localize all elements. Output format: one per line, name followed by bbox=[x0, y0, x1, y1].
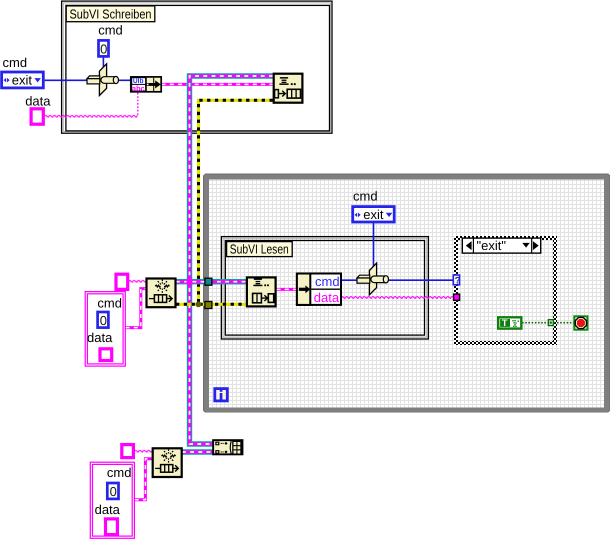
svg-text:exit: exit bbox=[12, 72, 33, 87]
svg-text:data: data bbox=[87, 330, 113, 345]
wire: string zigzag unbundle data to case tunnel bbox=[342, 296, 454, 299]
wire: blue type cast to flatten bbox=[118, 79, 131, 81]
cluster string constant (middle) bbox=[100, 349, 112, 361]
obtain queue node bbox=[147, 279, 176, 308]
svg-text:data: data bbox=[95, 502, 121, 517]
frame label SubVI Lesen bbox=[227, 242, 293, 257]
svg-text:0: 0 bbox=[100, 313, 107, 328]
svg-text:cmd: cmd bbox=[97, 295, 122, 310]
flat sequence frame SubVI Lesen bbox=[221, 237, 428, 339]
svg-text:"exit": "exit" bbox=[477, 238, 507, 253]
wire: error cluster obtain to dequeue bbox=[176, 303, 246, 306]
type cast U1 (SubVI Schreiben) bbox=[87, 64, 119, 96]
case tunnel string (magenta) bbox=[454, 294, 460, 300]
wire: string zigzag name into obtain queue 2 bbox=[135, 450, 152, 453]
case tunnel boolean (green) bbox=[548, 320, 553, 326]
wire: cluster dequeue element to unbundle bbox=[277, 288, 297, 291]
svg-text:cmd: cmd bbox=[353, 189, 378, 204]
flatten-to-string node bbox=[131, 77, 161, 93]
enqueue element node bbox=[274, 74, 303, 103]
wire: string flatten to enqueue element bbox=[162, 83, 273, 86]
case structure border bbox=[454, 236, 557, 345]
svg-text:data: data bbox=[314, 290, 340, 305]
svg-text:0: 0 bbox=[100, 41, 107, 56]
dequeue element node bbox=[247, 277, 276, 306]
flat sequence frame SubVI Schreiben bbox=[62, 1, 332, 133]
tunnel queue refnum (loop border) bbox=[205, 278, 212, 285]
wire: boolean T constant to case tunnel bbox=[522, 322, 548, 324]
unbundle by name node bbox=[297, 274, 341, 306]
string constant (queue name, bottom) bbox=[122, 445, 134, 458]
enum control cmd bbox=[2, 72, 44, 88]
cluster enum 0 (bottom) bbox=[107, 483, 118, 499]
cluster enum 0 (middle) bbox=[98, 312, 109, 328]
build/array node at bottom bbox=[212, 439, 243, 455]
wire: boolean case tunnel to loop condition bbox=[554, 322, 574, 324]
wire: cluster constant to obtain queue bbox=[126, 289, 147, 328]
wire: blue 0 constant down into type cast bbox=[102, 58, 104, 68]
string control data bbox=[31, 109, 43, 124]
wire: queue refnum obtain to dequeue bbox=[176, 279, 246, 284]
wire: cluster constant 2 to obtain queue 2 bbox=[135, 459, 152, 500]
svg-text:cmd: cmd bbox=[3, 55, 28, 70]
wire: string zigzag data control to flatten bbox=[45, 115, 138, 118]
wire: blue exit constant down into type cast 2 bbox=[373, 223, 375, 267]
cluster constant (middle) bbox=[85, 292, 125, 367]
svg-text:cmd: cmd bbox=[98, 23, 123, 38]
svg-text:0: 0 bbox=[110, 484, 117, 499]
case selector label bbox=[462, 238, 540, 253]
iteration terminal i bbox=[215, 389, 228, 401]
enum constant exit (while loop) bbox=[353, 207, 395, 222]
obtain queue node 2 bbox=[153, 448, 182, 477]
loop condition terminal (stop) bbox=[574, 316, 587, 329]
cluster constant (bottom) bbox=[90, 462, 134, 538]
svg-text:cmd: cmd bbox=[107, 465, 132, 480]
frame label SubVI Schreiben bbox=[66, 6, 155, 22]
wire: string branch down from flatten abc bbox=[137, 93, 139, 116]
tunnel error cluster (loop border) bbox=[205, 302, 212, 309]
string constant (queue name, middle) bbox=[116, 274, 128, 289]
boolean constant T bbox=[498, 317, 521, 329]
while loop border bbox=[203, 174, 610, 412]
wire: blue unbundle cmd to type cast 2 bbox=[342, 279, 359, 281]
svg-text:exit: exit bbox=[363, 207, 384, 222]
wire: error cluster trunk vertical to enqueue bbox=[199, 100, 273, 304]
wire: queue refnum trunk (top corner, vertical, bottom corner) bbox=[190, 76, 273, 444]
junction dot error bbox=[196, 301, 202, 307]
svg-text:abc: abc bbox=[132, 84, 145, 93]
enum constant 0 (top frame) bbox=[99, 40, 109, 56]
wire: string zigzag name into obtain queue bbox=[129, 280, 146, 283]
svg-text:cmd: cmd bbox=[315, 274, 340, 289]
wire: blue enum control to type cast bbox=[45, 79, 87, 81]
svg-text:SubVI Lesen: SubVI Lesen bbox=[230, 242, 289, 257]
case selector terminal ? bbox=[453, 275, 460, 286]
svg-text:data: data bbox=[25, 93, 51, 108]
cluster string constant (bottom) bbox=[106, 519, 118, 535]
svg-text:T: T bbox=[502, 318, 508, 329]
junction dot queue bbox=[187, 279, 193, 285]
type cast U2 (while loop) bbox=[357, 263, 389, 295]
svg-text:SubVI Schreiben: SubVI Schreiben bbox=[70, 6, 152, 21]
wire: queue refnum obtain 2 to build node bbox=[182, 449, 213, 454]
wire: blue type cast 2 to case selector bbox=[388, 279, 452, 281]
svg-text:?: ? bbox=[455, 275, 461, 286]
